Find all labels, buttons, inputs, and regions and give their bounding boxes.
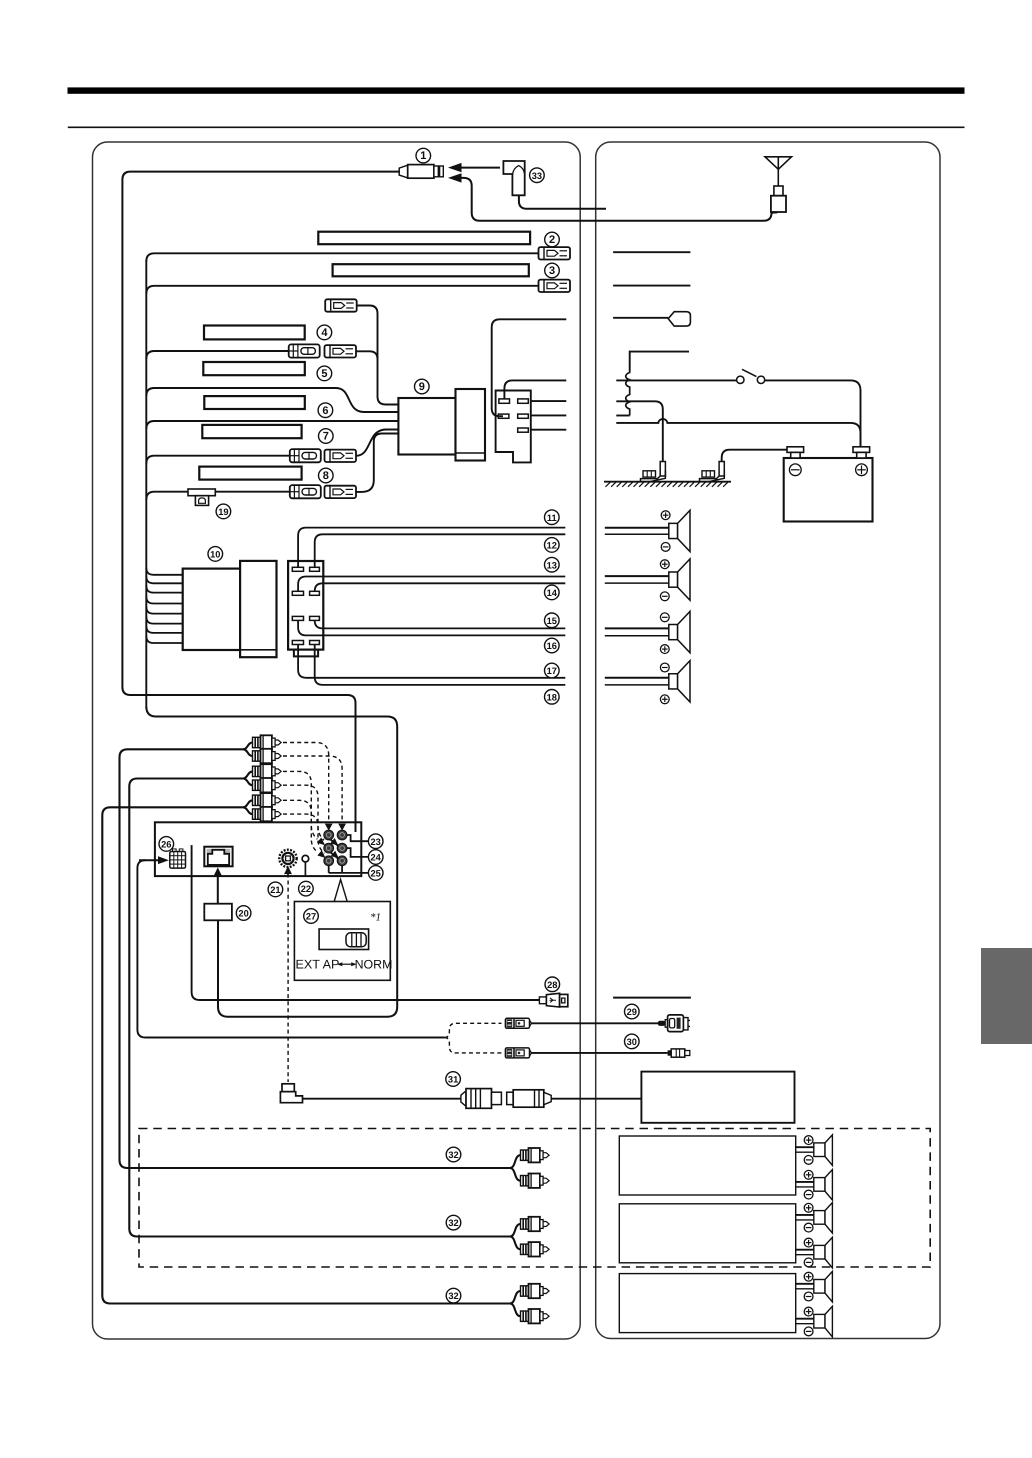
svg-text:23: 23 [371, 837, 381, 847]
dashed fork to extension leads 29/30 [444, 1023, 501, 1037]
svg-text:31: 31 [448, 1075, 458, 1085]
label 30 [625, 1034, 640, 1049]
RCA lead 32 pair 3 fork [510, 1291, 521, 1316]
female connector lead 7 [290, 449, 321, 462]
svg-text:25: 25 [371, 869, 381, 879]
wire lead 5 [146, 388, 398, 412]
dashed route A1 [283, 743, 329, 822]
label 17 [545, 663, 560, 678]
wire: battery negative to chassis lug 2 [722, 450, 788, 462]
rear left speaker [605, 661, 690, 702]
label 4 [317, 325, 332, 340]
lead 31 inline connector (female) [507, 1090, 552, 1107]
shared harness vertical (leads 2-8) [145, 260, 147, 708]
wire: harness lead 4 into connector 10 [146, 597, 182, 604]
label bar 3 [333, 264, 529, 276]
dashed route B1 [283, 771, 317, 839]
svg-text:28: 28 [547, 980, 557, 990]
wire: harness lead 3 into connector 10 [146, 586, 182, 593]
arrow into front R jack [317, 838, 325, 846]
antenna plug 1 [399, 165, 443, 179]
label 29 [625, 1004, 640, 1019]
arrow into sub R jack [317, 850, 325, 858]
vehicle lead (matches 3) [613, 285, 690, 287]
processor box (31 destination) [641, 1072, 794, 1123]
label 25 [368, 866, 383, 881]
RCA plug 32-2b [521, 1242, 550, 1256]
battery [784, 447, 873, 522]
label 5 [317, 366, 332, 381]
amplifier 2 [619, 1204, 795, 1263]
wire: lead 8 bullet to connector 9 [356, 434, 398, 492]
svg-text:21: 21 [270, 885, 280, 895]
dashed route B2 [283, 785, 324, 840]
label 22 [299, 881, 314, 896]
amp1 speaker B [796, 1170, 833, 1201]
left panel (head unit side) [93, 142, 581, 1339]
switch labels EXT AP / NORM [296, 958, 393, 972]
arrow: adapter 33 into plug 1 [448, 163, 500, 172]
wire: harness lead 8 into connector 10 [146, 636, 182, 643]
wire: bundle from harness down around to socket 20 [146, 707, 397, 1017]
battery positive terminal mark [856, 464, 868, 476]
male bullet lead 8 [325, 486, 357, 498]
label 12 [545, 538, 560, 553]
wire: speaker lead 11 [298, 528, 565, 568]
label bar 8 [199, 467, 301, 480]
svg-text:3: 3 [549, 265, 555, 277]
wire: lead 31 [303, 1098, 461, 1100]
vehicle-side line (28 mate) [613, 997, 691, 999]
wire: harness lead 2 into connector 10 [146, 576, 182, 583]
amp3 speaker B [796, 1306, 833, 1337]
rear right speaker [605, 611, 690, 652]
label 23 [368, 834, 383, 849]
svg-text:32: 32 [448, 1150, 458, 1160]
RCA output jack (sub L) [337, 856, 347, 866]
chassis ground lug 2 [700, 462, 725, 482]
pin row 3 right (ISO block) [310, 616, 320, 620]
cable item 20 [204, 904, 232, 921]
reset hole 22 [302, 855, 309, 876]
RCA output jack (sub R) [324, 856, 334, 866]
pointer to switch detail 27 [334, 880, 347, 902]
svg-text:*1: *1 [370, 912, 381, 924]
wire: harness lead 1 into connector 10 [146, 568, 182, 575]
wire: RCA pigtail C routed to amplifier row [102, 807, 511, 1303]
vehicle lead (matches 2) [613, 251, 690, 253]
label 1 [416, 148, 431, 163]
label 21 [268, 882, 283, 897]
svg-text:8: 8 [323, 470, 329, 482]
wire: speaker lead 18 [315, 645, 566, 685]
wire: socket 26 lead down to items 29/30 [137, 860, 444, 1037]
dashed route C1 [283, 800, 318, 852]
pigtail C fork [243, 800, 253, 814]
lead 31 inline connector (male) [461, 1089, 502, 1109]
jack link diagonals [330, 839, 344, 851]
sidebar gray tab [981, 948, 1032, 1044]
wire: extension lead 29 [532, 1022, 660, 1024]
label bar 7 [202, 425, 301, 438]
label bar 2 [318, 232, 530, 245]
label bar 6 [204, 396, 304, 409]
header rule (thin) [68, 126, 965, 128]
power connector 9 [398, 389, 485, 461]
RCA output jack (rear R) [324, 830, 334, 840]
wire: lead 4 bullet to connector 9 [356, 351, 378, 359]
amplifier 3 [619, 1274, 795, 1333]
RCA plug B2 [253, 778, 282, 792]
DIN socket 21 [279, 850, 296, 867]
right-angle plug 31 [280, 1084, 302, 1103]
arrow into rear R jack [325, 824, 333, 831]
label 8 [319, 468, 334, 483]
connector on lead 2 [539, 247, 571, 259]
wire: speaker lead 15 [315, 620, 566, 628]
wire: speaker lead 17 [298, 645, 565, 678]
bullet connector above lead 4 [325, 299, 357, 311]
RCA plug C2 [253, 807, 282, 821]
arrow into rear L jack [338, 824, 346, 831]
RCA plug 32-1b [521, 1174, 550, 1188]
label bar 4 [204, 326, 305, 340]
label bar 5 [203, 362, 304, 375]
svg-text:20: 20 [238, 909, 248, 919]
label 26 [159, 837, 174, 852]
svg-text:6: 6 [322, 405, 328, 417]
wire: speaker lead 16 [298, 620, 565, 635]
pin row 2 left (ISO block) [292, 591, 303, 595]
svg-text:9: 9 [419, 381, 425, 393]
wire lead 7 [146, 456, 289, 464]
pin (vehicle connector, right bottom) [518, 428, 529, 432]
pin (vehicle connector, left mid) [498, 414, 509, 418]
switch detail box 27 [294, 902, 390, 981]
pin row 1 right (ISO block) [310, 567, 320, 571]
male bullet lead 7 [325, 450, 357, 462]
svg-text:16: 16 [547, 641, 557, 651]
main harness connector 10 [183, 561, 277, 657]
RCA output jack (rear L) [337, 830, 347, 840]
front left speaker [605, 559, 690, 600]
svg-text:12: 12 [547, 541, 557, 551]
svg-text:17: 17 [547, 666, 557, 676]
wire: speaker lead 12 [315, 534, 566, 567]
svg-text:32: 32 [448, 1218, 458, 1228]
label 32 [446, 1215, 461, 1230]
wire: upper bullet to connector 9 [357, 306, 399, 405]
harness boundary squiggle [626, 371, 630, 416]
multipin socket 26 [170, 849, 186, 868]
battery negative terminal mark [789, 464, 801, 476]
label 33 [530, 168, 545, 183]
label 28 [545, 977, 560, 992]
pin (vehicle connector, right mid) [518, 414, 529, 418]
female connector lead 4 [289, 344, 320, 357]
vehicle antenna symbol [765, 157, 792, 212]
label 27 [304, 909, 319, 924]
header rule (thick) [68, 87, 965, 93]
RCA plug B1 [253, 764, 282, 778]
svg-text:5: 5 [321, 368, 327, 380]
pin row 3 left (ISO block) [292, 616, 303, 620]
wire: lead 31 to processor box [551, 1098, 641, 1100]
wire: extension lead 30 [532, 1052, 668, 1054]
svg-text:30: 30 [627, 1037, 637, 1047]
svg-text:EXT AP: EXT AP [296, 958, 340, 972]
fuse holder 19 on lead 8 [188, 489, 215, 505]
label 15 [545, 613, 560, 628]
pin row 1 left (ISO block) [292, 567, 303, 571]
pin row 4 left (ISO block) [292, 641, 303, 645]
capped vehicle lead [613, 312, 690, 326]
link to label 24 [347, 848, 369, 857]
wire: speaker lead 14 [298, 577, 565, 592]
wire: RCA pigtail A routed to amplifier row [120, 749, 512, 1168]
arrow: cable 20 into RJ socket [214, 867, 222, 903]
svg-text:15: 15 [547, 616, 557, 626]
RCA lead 32 pair 1 fork [510, 1155, 521, 1181]
label 13 [545, 557, 560, 572]
svg-text:27: 27 [306, 912, 316, 922]
dashed route C2 [283, 814, 325, 853]
chassis ground strip [604, 482, 731, 487]
harness stub [616, 415, 629, 417]
RCA plug 32-1a [521, 1148, 550, 1162]
wire: right pin 1 [531, 400, 567, 402]
wire: ground lead to chassis lug [616, 401, 663, 461]
wire: rear panel lead to plug 28 [192, 845, 540, 1000]
RCA plug A1 [253, 735, 282, 749]
wire: RCA pigtail B routed to amplifier row [129, 779, 511, 1237]
extension lead 29 plug (left) [505, 1018, 531, 1028]
label 16 [545, 638, 560, 653]
svg-text:18: 18 [547, 692, 557, 702]
pigtail A fork [243, 743, 253, 757]
dashed lead: DIN socket 21 to plug 31 [287, 881, 289, 1083]
label 6 [318, 403, 333, 418]
RCA plug 32-3a [521, 1284, 550, 1298]
svg-text:32: 32 [448, 1291, 458, 1301]
svg-text:13: 13 [547, 560, 557, 570]
arrow into socket 26 [139, 856, 169, 864]
ignition switch [737, 369, 765, 383]
wire: right pin 2 [531, 414, 567, 416]
head unit rear panel box [155, 822, 361, 876]
svg-text:22: 22 [301, 884, 311, 894]
wire: speaker lead 13 [315, 583, 566, 591]
amp3 speaker A [796, 1271, 833, 1302]
wire: left top pin (ACC) [504, 380, 566, 399]
RJ socket (for 20) [204, 847, 232, 867]
interface plug 28 [539, 993, 567, 1007]
extension lead 30 connector (right) [668, 1049, 690, 1057]
svg-text:24: 24 [371, 853, 382, 863]
svg-text:29: 29 [627, 1007, 637, 1017]
RCA plug A2 [253, 749, 282, 763]
label 32 [446, 1147, 461, 1162]
amplifier 1 [619, 1136, 795, 1195]
arrow into front L jack [330, 838, 338, 846]
wire: battery constant line [616, 419, 860, 447]
extension lead 29 connector (right) [658, 1015, 690, 1032]
wire: harness lead 7 into connector 10 [146, 626, 182, 633]
wire: switch to battery positive [765, 380, 861, 446]
pin row 2 right (ISO block) [310, 591, 320, 595]
label 11 [545, 510, 560, 525]
RCA plug 32-2a [521, 1217, 550, 1231]
wire lead 4 [146, 351, 288, 359]
RCA lead 32 pair 2 fork [510, 1224, 521, 1249]
label 7 [319, 429, 334, 444]
front right speaker [605, 510, 690, 551]
pigtail B fork [243, 771, 253, 785]
pin (vehicle connector, right top) [518, 399, 529, 403]
wire lead 6 [146, 421, 398, 429]
wire lead 3 [146, 286, 538, 294]
amp1 speaker A [796, 1135, 833, 1166]
link to label 23 [347, 835, 369, 841]
male bullet lead 4 [325, 345, 357, 357]
svg-text:19: 19 [218, 507, 228, 517]
vehicle-side connector [496, 391, 531, 463]
wire: left mid pin [492, 319, 567, 416]
chassis ground lug 1 [641, 462, 666, 482]
wire lead 8 [146, 492, 289, 500]
system switch icon [319, 929, 369, 950]
link to label 25 [329, 865, 369, 873]
wire: right pin 3 [531, 429, 567, 431]
svg-text:7: 7 [323, 431, 329, 443]
wire stub: antenna lead into rear panel [355, 822, 357, 832]
label 31 [446, 1072, 461, 1087]
label 20 [236, 906, 251, 921]
svg-text:NORM: NORM [355, 958, 393, 972]
amp2 speaker B [796, 1237, 833, 1268]
label 19 [216, 504, 231, 519]
svg-text:1: 1 [420, 150, 426, 162]
arrow into sub L jack [331, 851, 339, 859]
label 2 [545, 232, 560, 247]
connector on lead 3 [539, 280, 571, 292]
wire: antenna lead from plug 1 down left margin to rear-panel stub [122, 172, 399, 832]
wire: lead 7 bullet to connector 9 [356, 430, 398, 456]
RCA plug 32-3b [521, 1309, 550, 1323]
dashed option enclosure [139, 1129, 930, 1268]
vehicle harness stub line [630, 352, 689, 371]
svg-text:4: 4 [321, 327, 328, 339]
label 14 [545, 585, 560, 600]
label 24 [368, 850, 383, 865]
svg-text:26: 26 [161, 840, 171, 850]
svg-text:14: 14 [547, 588, 558, 598]
RCA plug C1 [253, 793, 282, 807]
svg-text:33: 33 [532, 171, 542, 181]
wire: ACC line to switch [616, 379, 736, 381]
svg-text:10: 10 [210, 550, 220, 560]
wire lead 2 [146, 253, 538, 261]
RCA output jack (front R) [324, 843, 334, 853]
dashed route A2 [283, 756, 342, 822]
extension lead 30 plug (left) [505, 1048, 531, 1058]
arrow: lead 31 into DIN socket 21 [284, 866, 292, 878]
amp2 speaker A [796, 1203, 833, 1234]
label 9 [415, 379, 430, 394]
svg-text:2: 2 [549, 234, 555, 246]
label 32 [446, 1288, 461, 1303]
pin (vehicle connector, left top) [499, 399, 510, 403]
right panel (vehicle side) [596, 142, 940, 1339]
label 18 [545, 690, 560, 705]
wire: harness lead 5 into connector 10 [146, 607, 182, 614]
arrow + wire: vehicle antenna lead into plug 1 [448, 173, 777, 221]
label 3 [545, 263, 560, 278]
wire: harness lead 6 into connector 10 [146, 617, 182, 624]
pin row 4 right (ISO block) [310, 641, 320, 645]
antenna adapter 33 [503, 161, 606, 209]
RCA output jack (front L) [337, 843, 347, 853]
label 10 [208, 547, 223, 562]
svg-text:11: 11 [547, 513, 557, 523]
female connector lead 8 [290, 485, 321, 498]
ISO speaker connector block [288, 561, 323, 656]
